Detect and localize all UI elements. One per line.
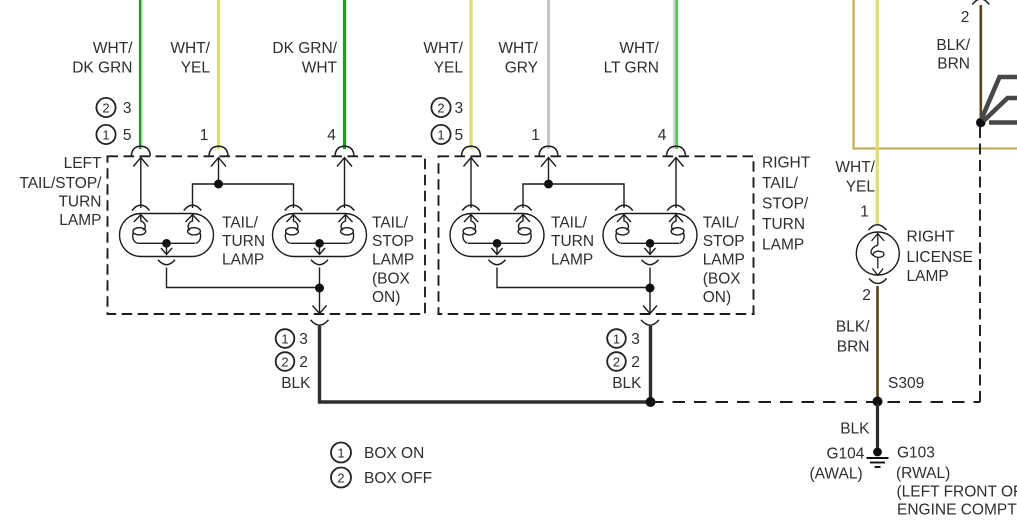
svg-text:4: 4 (327, 127, 336, 144)
svg-text:2: 2 (613, 354, 620, 369)
svg-text:BLK/: BLK/ (836, 319, 870, 336)
right lamp assembly dashed box (439, 156, 754, 314)
svg-text:LAMP: LAMP (222, 252, 264, 269)
wire WHT/YEL left (217, 0, 220, 149)
svg-text:2: 2 (862, 287, 871, 304)
option branch 3 (989, 120, 1017, 125)
svg-text:4: 4 (658, 127, 667, 144)
boundary connector wire4 (462, 146, 481, 166)
option branch 2 (984, 98, 1017, 121)
svg-text:2: 2 (961, 9, 970, 26)
svg-text:WHT/: WHT/ (170, 40, 210, 57)
svg-text:2: 2 (631, 354, 640, 371)
boundary connector wire5 (539, 146, 558, 166)
dashed wire vertical to junction (979, 123, 981, 402)
lamp C body (tail/turn) (450, 214, 544, 265)
svg-text:2: 2 (102, 100, 109, 115)
circled pin 2 (box1) (96, 98, 115, 117)
svg-text:1: 1 (102, 127, 109, 142)
svg-text:ENGINE COMPT): ENGINE COMPT) (897, 502, 1017, 519)
lamp D left terminal (615, 205, 633, 243)
wire DK GRN/WHT (343, 0, 346, 149)
svg-text:TAIL/STOP/: TAIL/STOP/ (19, 175, 102, 192)
BLK ground bus wire (320, 326, 651, 402)
license lamp connector bottom (869, 279, 887, 284)
svg-text:WHT/: WHT/ (93, 40, 133, 57)
svg-text:WHT/: WHT/ (423, 40, 463, 57)
wire WHT/YEL second (469, 0, 472, 149)
lamp C right terminal (514, 205, 532, 243)
wire WHT/DK GRN (light stripe) (141, 0, 143, 149)
legend circled 2 (331, 468, 351, 488)
svg-text:DK GRN: DK GRN (72, 60, 132, 77)
svg-text:ON): ON) (372, 289, 400, 306)
circled pin 2 below box1 (276, 352, 295, 371)
svg-text:TURN: TURN (551, 233, 594, 250)
svg-text:1: 1 (531, 127, 540, 144)
lamp B bottom wire (319, 268, 321, 314)
svg-text:ON): ON) (703, 289, 731, 306)
box1 exit connector (311, 306, 329, 326)
svg-text:TURN: TURN (58, 194, 101, 211)
svg-text:DK GRN/: DK GRN/ (272, 40, 337, 57)
svg-text:STOP: STOP (703, 233, 745, 250)
circled pin 2 (box2) (431, 98, 450, 117)
svg-text:LAMP: LAMP (907, 268, 949, 285)
wire BLK/BRN top right (979, 5, 982, 119)
wire stem w5 to junction (548, 158, 550, 184)
svg-text:LICENSE: LICENSE (907, 249, 973, 266)
wire WHT/DK GRN (dark stripe) (139, 0, 141, 149)
svg-text:(RWAL): (RWAL) (896, 465, 950, 482)
lamp A left terminal (132, 205, 150, 243)
svg-text:STOP/: STOP/ (762, 196, 809, 213)
connector arc top right edge (972, 0, 989, 5)
circled pin 1 (box2) (431, 125, 450, 144)
right license lamp body (856, 232, 899, 275)
wire BLK/BRN license to S309 (876, 286, 879, 399)
svg-text:S309: S309 (888, 375, 924, 392)
svg-text:2: 2 (299, 354, 308, 371)
svg-text:3: 3 (454, 100, 463, 117)
svg-text:5: 5 (123, 127, 132, 144)
tan component box corner (854, 0, 1017, 149)
lamp C left terminal (462, 205, 480, 243)
svg-text:WHT: WHT (302, 60, 338, 77)
svg-text:RIGHT: RIGHT (762, 155, 811, 172)
branch wire box1 (193, 184, 294, 208)
svg-text:WHT/: WHT/ (835, 159, 875, 176)
svg-text:BLK: BLK (840, 421, 870, 438)
svg-text:3: 3 (299, 331, 308, 348)
svg-text:TURN: TURN (222, 233, 265, 250)
svg-text:1: 1 (860, 204, 869, 221)
lamp B right terminal (337, 205, 355, 243)
svg-text:5: 5 (454, 127, 463, 144)
svg-text:GRY: GRY (505, 60, 538, 77)
circled pin 1 (box1) (96, 125, 115, 144)
svg-text:2: 2 (437, 100, 444, 115)
svg-text:(BOX: (BOX (372, 271, 411, 288)
svg-text:YEL: YEL (846, 179, 876, 196)
wire stem w3 to lamp B (344, 158, 346, 208)
ground symbol (867, 448, 889, 467)
svg-text:3: 3 (123, 100, 132, 117)
svg-text:1: 1 (200, 127, 209, 144)
lamp D right terminal (667, 205, 685, 243)
svg-text:BOX OFF: BOX OFF (364, 470, 432, 487)
svg-text:1: 1 (281, 331, 288, 346)
svg-text:G104: G104 (827, 446, 865, 463)
circled pin 2 below box2 (607, 352, 626, 371)
svg-text:BLK: BLK (612, 375, 642, 392)
license lamp filament (871, 234, 884, 276)
svg-text:(BOX: (BOX (703, 271, 742, 288)
lamp B body (tail/stop) (273, 214, 367, 265)
boundary connector wire1 (131, 146, 150, 166)
svg-text:TURN: TURN (762, 216, 805, 233)
box2 exit connector (641, 306, 659, 326)
wire stem w1 to lamp A (140, 158, 142, 208)
svg-text:1: 1 (437, 127, 444, 142)
svg-text:TAIL/: TAIL/ (372, 215, 409, 232)
lamp A bottom wire (167, 268, 320, 288)
svg-text:(AWAL): (AWAL) (810, 466, 863, 483)
svg-text:BOX ON: BOX ON (364, 445, 424, 462)
license lamp connector top (869, 225, 887, 230)
svg-text:TAIL/: TAIL/ (703, 215, 740, 232)
wire BLK to ground (876, 404, 879, 450)
svg-text:LAMP: LAMP (551, 252, 593, 269)
BLK wire box2 drop (649, 326, 652, 404)
svg-text:G103: G103 (897, 445, 935, 462)
lamp C bottom wire (497, 268, 650, 288)
wire stem w6 to lamp D (675, 158, 677, 208)
svg-text:1: 1 (337, 445, 344, 460)
svg-text:YEL: YEL (181, 60, 211, 77)
splice dot S309 (873, 397, 883, 407)
svg-text:RIGHT: RIGHT (907, 229, 956, 246)
svg-text:WHT/: WHT/ (619, 40, 659, 57)
wire WHT/LT GRN (white stripe) (673, 0, 675, 149)
svg-text:BRN: BRN (837, 339, 870, 356)
junction dot box1 (214, 180, 223, 189)
svg-text:LT GRN: LT GRN (604, 60, 659, 77)
wire stem w2 to junction (218, 158, 220, 184)
svg-text:LAMP: LAMP (59, 212, 101, 229)
wire WHT/GRY (547, 0, 550, 149)
left lamp assembly dashed box (108, 156, 426, 314)
wire WHT/YEL right (876, 0, 879, 225)
svg-text:2: 2 (337, 470, 344, 485)
svg-text:3: 3 (631, 331, 640, 348)
junction dot box2 bottom (646, 284, 655, 293)
svg-text:BRN: BRN (937, 56, 970, 73)
wire stem w4 to lamp C (470, 158, 472, 208)
svg-text:WHT/: WHT/ (498, 40, 538, 57)
circled pin 1 below box2 (607, 329, 626, 348)
svg-text:LEFT: LEFT (64, 155, 102, 172)
svg-text:YEL: YEL (434, 60, 464, 77)
boundary connector wire6 (667, 146, 686, 166)
junction dot right (options) (976, 118, 986, 128)
wire WHT/LT GRN (green stripe) (675, 0, 678, 149)
junction dot box1 bottom (315, 284, 324, 293)
svg-text:BLK/: BLK/ (936, 37, 970, 54)
legend circled 1 (331, 443, 351, 463)
svg-text:(LEFT FRONT OF: (LEFT FRONT OF (897, 484, 1017, 501)
svg-text:2: 2 (281, 354, 288, 369)
svg-text:1: 1 (613, 331, 620, 346)
lamp A body (tail/turn) (120, 214, 214, 265)
svg-text:LAMP: LAMP (703, 252, 745, 269)
lamp A right terminal (184, 205, 202, 243)
lamp D bottom wire (649, 268, 651, 314)
option branch 1 (982, 77, 1017, 119)
dashed wire to S309 and up (651, 401, 981, 403)
svg-text:LAMP: LAMP (762, 237, 804, 254)
svg-text:TAIL/: TAIL/ (551, 215, 588, 232)
boundary connector wire3 (335, 146, 354, 166)
svg-text:TAIL/: TAIL/ (222, 215, 259, 232)
svg-text:BLK: BLK (281, 375, 311, 392)
junction dot box2 (544, 180, 553, 189)
circled pin 1 below box1 (276, 329, 295, 348)
branch wire box2 (523, 184, 624, 208)
svg-text:STOP: STOP (372, 233, 414, 250)
lamp D body (tail/stop) (603, 214, 697, 265)
bus junction dot (646, 397, 656, 407)
svg-text:TAIL/: TAIL/ (762, 175, 799, 192)
svg-text:LAMP: LAMP (372, 252, 414, 269)
lamp B left terminal (285, 205, 303, 243)
boundary connector wire2 (209, 146, 228, 166)
